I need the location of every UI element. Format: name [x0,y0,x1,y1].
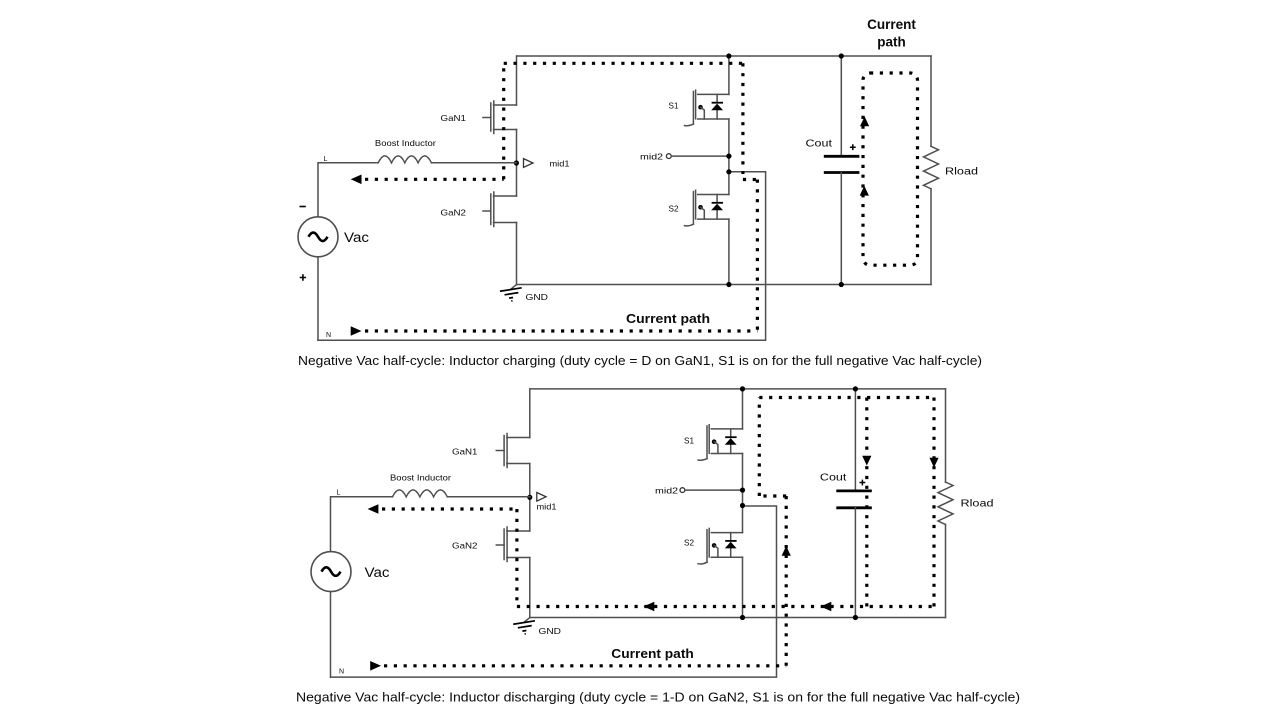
node Cout top junction dot [839,53,844,58]
node Cout top junction dot (bottom) [853,386,858,391]
node mid2 terminal circle (bottom) [680,488,685,493]
capacitor Cout top lead (bottom diagram) [854,389,856,491]
svg-text:Current path: Current path [611,646,694,661]
label Cout plus sign [850,144,856,150]
wire dotted vertical at Rload (bottom) [932,398,935,607]
node mid2 terminal circle [666,154,671,159]
label plus terminal [300,274,306,280]
svg-text:Boost Inductor: Boost Inductor [390,474,451,483]
GaN2 transistor (bottom) [496,527,530,562]
wire dotted vertical right of S1 (bottom) [758,398,761,497]
wire inductor to mid1 [431,162,516,164]
svg-text:GaN1: GaN1 [452,447,478,457]
svg-text:GaN2: GaN2 [441,208,467,218]
svg-text:mid1: mid1 [550,159,571,168]
wire mid2 lead (bottom) [685,489,743,491]
wire dotted current path vertical at GaN1 [502,63,505,179]
svg-text:Cout: Cout [806,139,833,150]
svg-text:GND: GND [539,626,562,636]
wire inductor to mid1 (bottom) [447,496,530,498]
svg-text:Current: Current [867,17,916,32]
wire Vac top to L terminal (bottom) [331,497,393,552]
wire S2 source to ground rail [728,219,730,284]
svg-text:mid1: mid1 [537,503,558,512]
wire Vac bottom to N (bottom) [330,592,332,678]
svg-text:S1: S1 [684,436,694,446]
wire top rail (top diagram) [517,55,931,57]
wire GaN1 source to mid1 to GaN2 drain (bottom) [529,464,531,532]
node Cout bottom junction dot [839,282,844,287]
arrow up on S2 dotted vertical (bottom) [782,546,791,556]
resistor Rload (bottom diagram) [938,389,953,618]
wire dotted current path vertical at GaN2 (bottom) [515,509,518,607]
mid1 open arrow marker (bottom) [537,493,546,502]
svg-text:Boost Inductor: Boost Inductor [375,139,436,148]
svg-text:L: L [337,490,341,497]
wire GaN2 source to ground rail (bottom) [529,558,531,618]
wire S1 source to mid2 [728,119,730,195]
wire dotted current path under inductor (top diagram) [365,178,504,181]
wire mid2 lead [671,155,729,157]
wire dotted current path N horizontal (bottom diagram) [384,664,786,667]
svg-text:mid2: mid2 [640,153,664,162]
svg-text:GaN1: GaN1 [441,113,467,123]
svg-text:Cout: Cout [820,473,847,484]
svg-text:GaN2: GaN2 [452,541,478,551]
arrow left current into L (top diagram) [351,175,362,185]
wire GaN2 source to ground rail [516,223,518,285]
wire ground rail (top diagram) [517,284,932,286]
transistor S1 (bottom diagram) [698,425,742,461]
wire ground rail (bottom diagram) [530,617,946,619]
wire GaN1 drain to top rail [516,56,518,105]
wire Vac bottom to N [317,257,319,341]
svg-text:path: path [877,35,906,50]
node S2 source on ground rail junction dot [726,282,731,287]
ground symbol GND (top diagram) [500,285,523,303]
voltage source Vac (top diagram) [298,217,338,257]
resistor Rload (top diagram) [924,56,939,285]
capacitor Cout plates (top diagram) [824,156,860,172]
node Cout bottom junction dot (bottom) [853,615,858,620]
transistor S1 (top diagram) [685,90,729,126]
wire dotted vertical at Cout (bottom) [865,398,868,607]
wire S1 source to mid2 (bottom) [742,454,744,533]
wire bottom return (N to mid2 junction) [318,172,766,340]
GaN1 transistor (bottom) [496,434,530,468]
wire top rail (bottom diagram) [530,388,946,390]
wire dotted output loop (top diagram) [863,73,918,265]
ground symbol GND (bottom diagram) [513,618,536,636]
transistor S2 (bottom diagram) [698,528,742,564]
svg-text:S1: S1 [669,101,679,111]
GaN2 transistor [483,192,517,227]
svg-text:Rload: Rload [961,499,994,510]
mid1 open arrow marker [524,159,534,168]
svg-text:N: N [326,332,331,339]
svg-text:Vac: Vac [365,565,390,580]
node S2 drain return junction dot [726,169,731,174]
wire dotted jog at mid2 (bottom) [759,494,786,497]
arrow left current into L (bottom diagram) [368,504,379,514]
wire S2 source to ground rail (bottom) [742,557,744,617]
arrow up output loop upper (top diagram) [860,117,869,127]
node S2 source on ground rail junction dot (bottom) [740,615,745,620]
wire dotted current path under inductor (bottom diagram) [382,507,517,510]
node mid2 junction dot (bottom) [740,488,745,493]
wire dotted current path top horizontal [504,62,743,65]
svg-text:S2: S2 [669,204,679,214]
node mid1 (top diagram) junction dot [514,160,519,165]
wire S1 drain to top rail [728,56,730,94]
node S2 drain return junction dot (bottom) [740,503,745,508]
wire dotted current path bottom horizontal (top diagram) [365,329,757,332]
wire dotted current path jog at mid2 [743,178,758,181]
svg-text:N: N [339,669,344,676]
GaN1 transistor [483,101,517,134]
transistor S2 (top diagram) [685,190,729,226]
svg-text:Negative Vac half-cycle: Induc: Negative Vac half-cycle: Inductor chargi… [298,354,982,368]
label Cout plus sign (bottom) [860,480,866,486]
svg-text:Current path: Current path [626,311,710,326]
capacitor Cout bottom lead [840,173,842,285]
arrow right current from N (top diagram) [351,326,362,336]
capacitor Cout bottom lead (bottom) [854,508,856,618]
wire S1 drain to top rail (bottom) [742,389,744,429]
inductor Boost Inductor (top diagram) [378,156,431,163]
wire dotted long bottom horizontal (bottom diagram) [517,605,934,608]
svg-text:Vac: Vac [344,230,369,245]
arrow down on Cout dotted vertical (bottom) [862,456,871,466]
arrow up output loop lower (top diagram) [860,186,869,196]
capacitor Cout top lead (top diagram) [840,56,842,156]
wire bottom return (N to mid2 junction, bottom diagram) [331,506,777,677]
node S1 drain on top rail junction dot (bottom) [740,386,745,391]
wire dotted vertical right of S2 (bottom) [785,496,788,666]
svg-text:GND: GND [526,292,549,302]
wire Vac top to L terminal [318,163,378,217]
label minus terminal [300,206,306,208]
svg-text:Negative Vac half-cycle: Induc: Negative Vac half-cycle: Inductor discha… [296,691,1020,705]
wire dotted current path vertical right of S1 [741,63,744,174]
wire dotted top horizontal (bottom diagram) [759,396,934,399]
wire GaN1 drain to top rail (bottom) [529,389,531,438]
wire GaN1 source to mid1 to GaN2 drain [516,130,518,197]
svg-text:L: L [324,156,328,163]
svg-text:S2: S2 [684,538,694,548]
wire dotted current path vertical right of S2 [756,180,759,332]
arrow down on Rload dotted vertical (bottom) [929,458,938,468]
arrow right current from N (bottom diagram) [370,661,381,671]
capacitor Cout plates (bottom diagram) [836,491,872,508]
arrow left on bottom dotted near Cout (bottom) [821,602,832,612]
inductor Boost Inductor (bottom diagram) [393,490,448,497]
arrow left on bottom dotted near GND (bottom) [644,602,655,612]
svg-text:mid2: mid2 [655,487,679,496]
svg-text:Rload: Rload [945,167,978,178]
node mid1 junction dot (bottom) [527,495,532,500]
voltage source Vac (bottom diagram) [311,552,351,592]
node mid2 junction dot [726,154,731,159]
node S1 drain on top rail junction dot [726,53,731,58]
